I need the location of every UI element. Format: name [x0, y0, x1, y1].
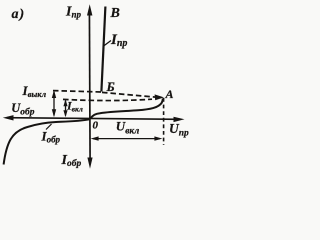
svg-text:Б: Б [106, 79, 115, 94]
U_vkl measurement arrow [91, 136, 163, 140]
I axis (vertical) [87, 4, 93, 169]
reverse branch (breakdown curve) [4, 119, 90, 164]
tick to I_obr label 1 [46, 124, 52, 130]
arrowhead at A [155, 94, 164, 100]
forward low-current branch to point A [90, 99, 163, 119]
I_vykl measurement arrow [52, 90, 56, 117]
I_vkl measurement arrow [63, 99, 67, 117]
dashed I_vykl level line [53, 91, 102, 92]
dashed vertical from A [163, 98, 165, 145]
on-state branch B-V (steep line) [101, 7, 105, 92]
svg-text:а): а) [12, 7, 25, 22]
U axis (horizontal) [3, 115, 185, 122]
dashed line B to A [102, 92, 157, 97]
dashed I_vkl level line [63, 99, 152, 100]
tick to I_pr curve label [104, 41, 111, 47]
svg-text:А: А [165, 87, 174, 101]
svg-text:0: 0 [93, 120, 99, 132]
svg-text:В: В [110, 6, 120, 21]
